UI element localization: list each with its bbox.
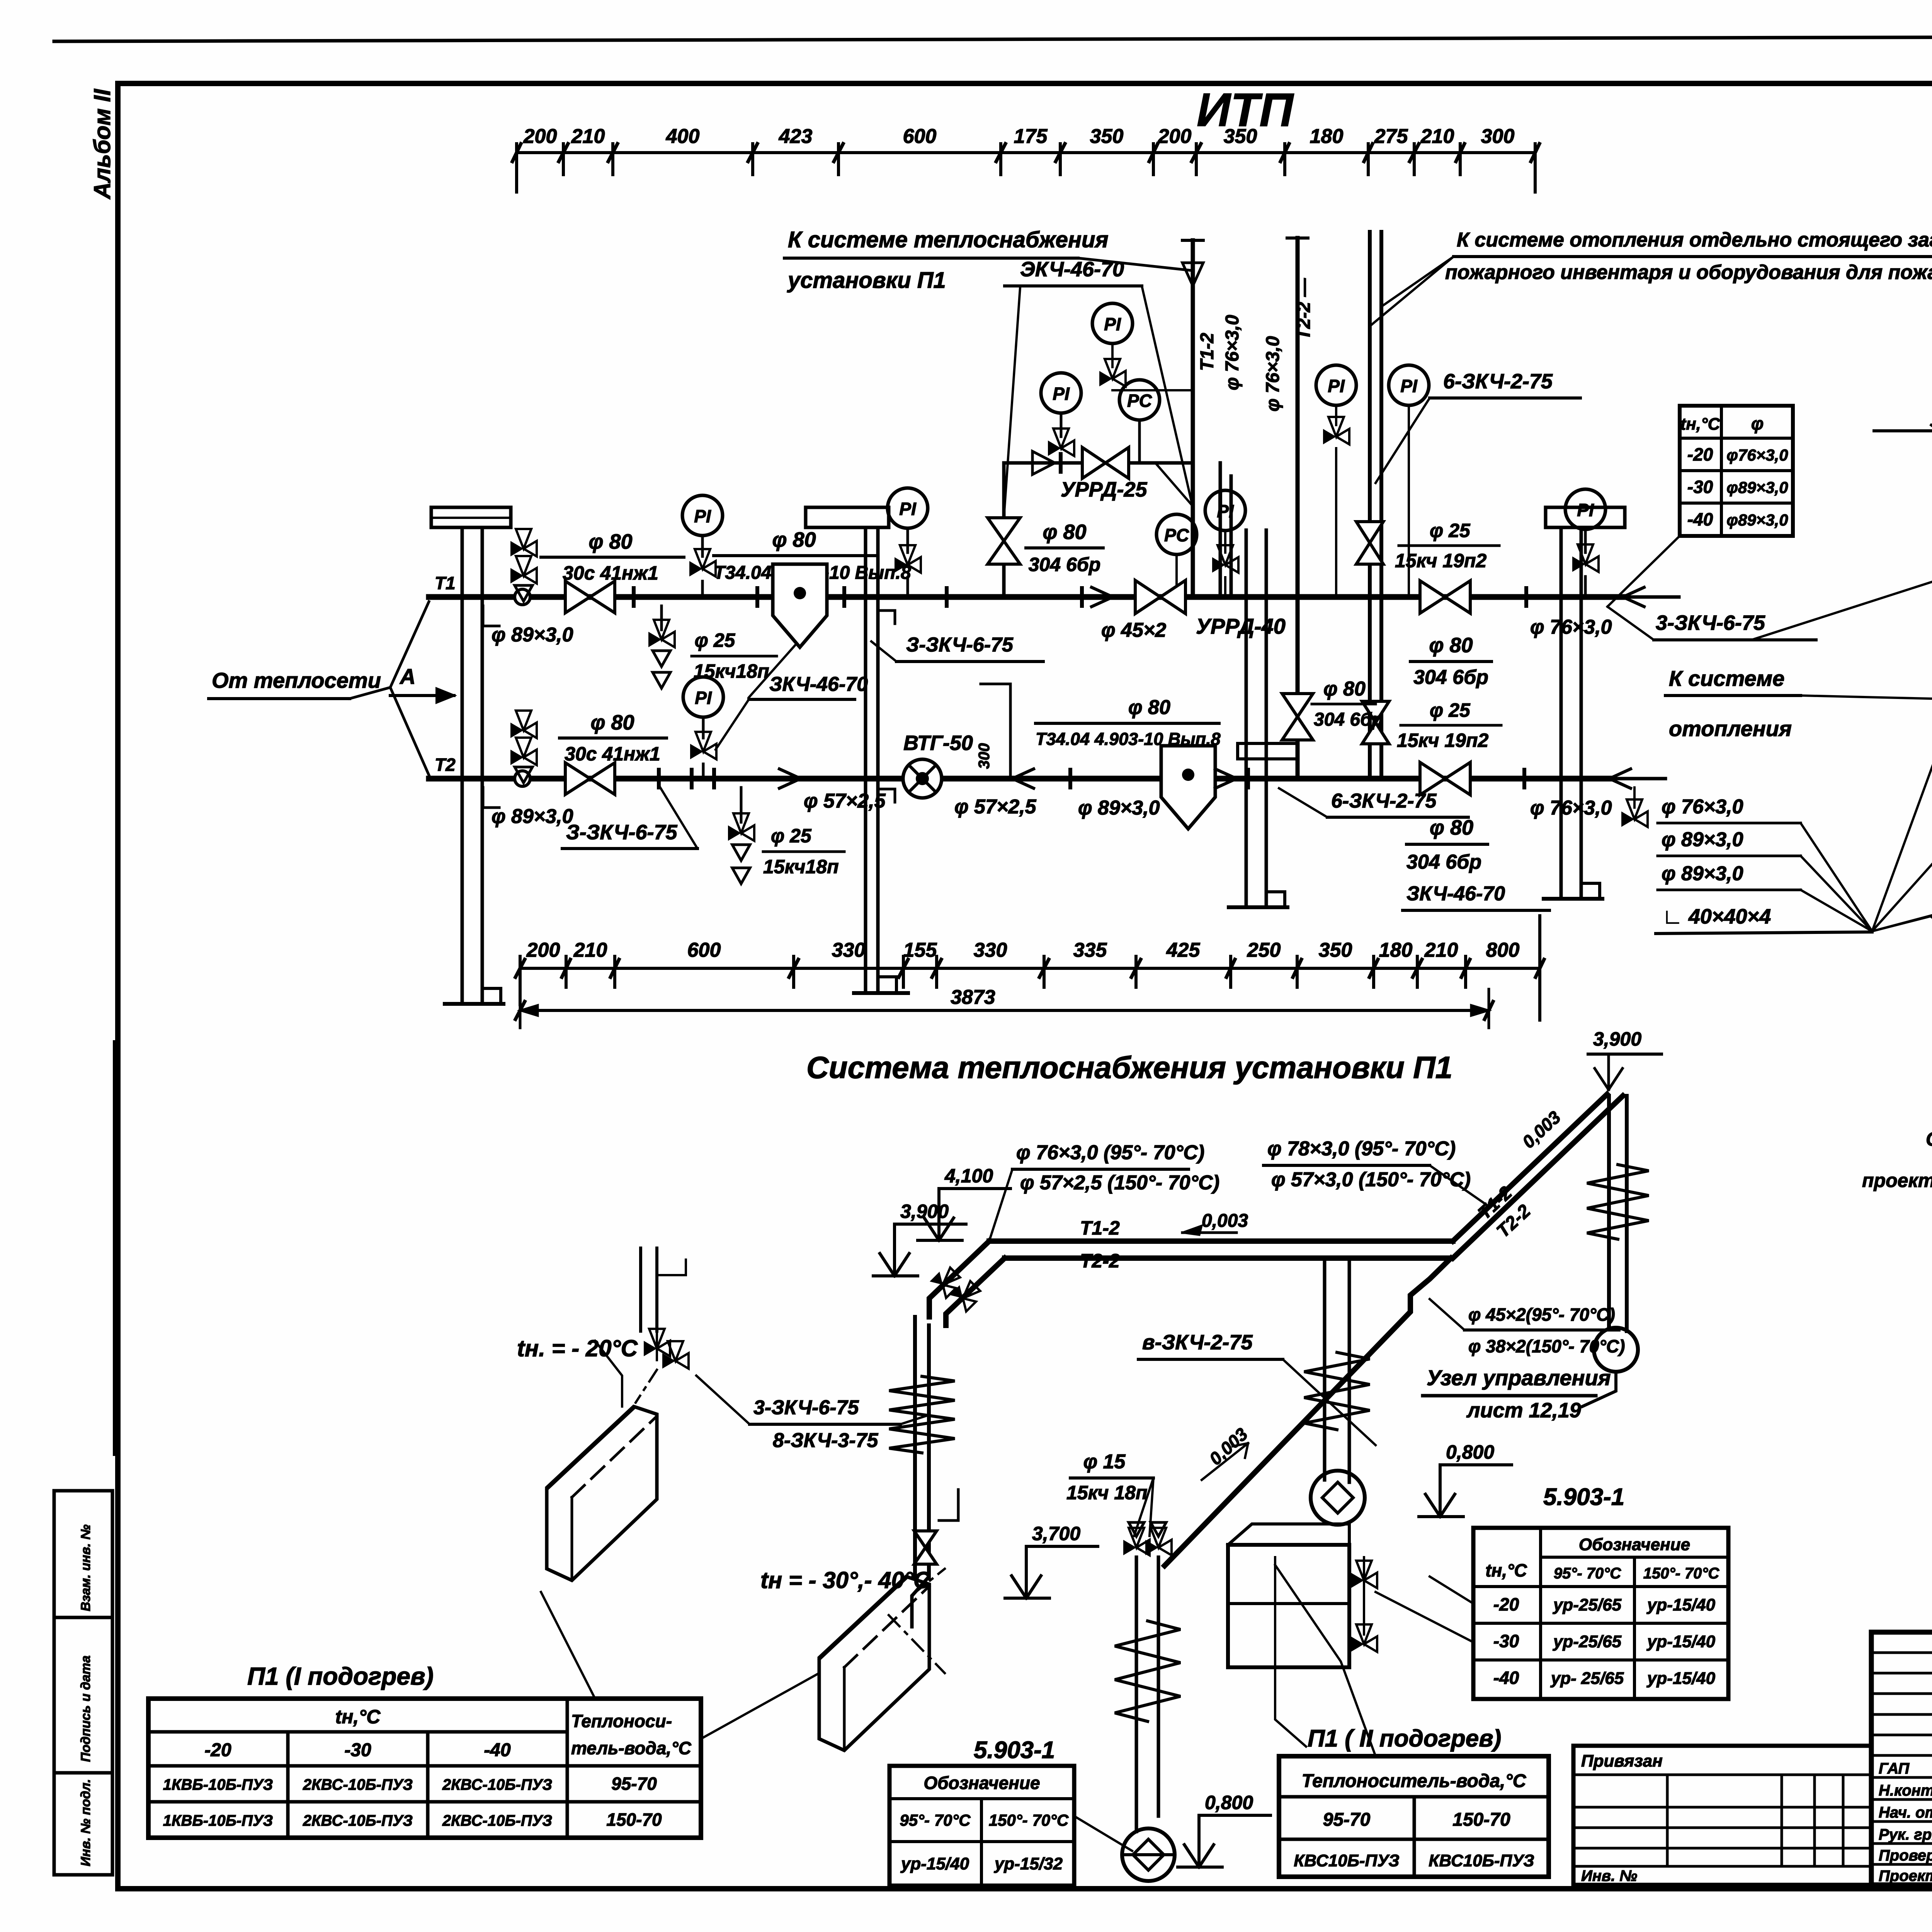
svg-text:А: А	[399, 664, 415, 689]
valve V3 on T2	[565, 763, 615, 794]
svg-text:φ 25: φ 25	[771, 825, 812, 847]
svg-text:φ 76×3,0: φ 76×3,0	[1530, 797, 1612, 819]
svg-text:φ89×3,0: φ89×3,0	[1726, 478, 1788, 497]
bypass pipe to УРРД-25	[1004, 463, 1193, 597]
svg-text:ур-25/65: ур-25/65	[1553, 1632, 1622, 1651]
pipe Т1-2 horizontal	[989, 1238, 1453, 1244]
table П1 II подогрев	[1279, 1725, 1549, 1877]
impulse line bypass	[1155, 463, 1193, 506]
diagonal Т2-2 upper part	[1453, 1096, 1623, 1258]
svg-text:φ 80: φ 80	[1430, 816, 1473, 839]
compensator mid pipes	[1304, 1352, 1370, 1430]
bracket on left riser	[939, 1490, 958, 1520]
svg-text:З-ЗКЧ-6-75: З-ЗКЧ-6-75	[566, 821, 678, 844]
label УРРД-40	[1196, 614, 1286, 638]
vertical label Т2-2 φ76×3,0	[1263, 278, 1314, 412]
pump circle lower right	[1594, 1328, 1638, 1372]
svg-text:-40: -40	[1687, 509, 1713, 529]
svg-text:30с 41нж1: 30с 41нж1	[565, 743, 660, 765]
table П1 I подогрев	[148, 1662, 701, 1838]
labels φ76/φ57 (left)	[989, 1141, 1219, 1241]
svg-text:φ 57×2,5: φ 57×2,5	[804, 790, 886, 812]
svg-text:φ 38×2(150°- 70°С): φ 38×2(150°- 70°С)	[1468, 1336, 1625, 1356]
svg-text:Т2: Т2	[435, 755, 456, 775]
label ВТГ-50	[903, 731, 973, 755]
svg-text:проекта и конкретных т: проекта и конкретных технических условия…	[1862, 1170, 1932, 1191]
svg-text:Проверил: Проверил	[1879, 1847, 1932, 1864]
left riser down	[915, 1317, 929, 1578]
annex box Привязан	[1573, 1746, 1871, 1885]
inlet note От теплосети	[209, 602, 429, 775]
label 3-ЗКЧ-6-75 / 8-ЗКЧ-3-75	[696, 1376, 929, 1452]
pipe Т2-2 horizontal	[1005, 1255, 1451, 1261]
leader to flag1	[1752, 520, 1932, 640]
svg-text:PI: PI	[694, 506, 711, 526]
svg-text:tн,°С: tн,°С	[1485, 1560, 1527, 1580]
svg-text:Привязан: Привязан	[1581, 1752, 1663, 1770]
leader from table	[1607, 536, 1680, 607]
svg-text:3,700: 3,700	[1032, 1523, 1080, 1544]
svg-text:300: 300	[976, 743, 993, 769]
leader to flag2	[1801, 696, 1932, 703]
svg-text:PI: PI	[899, 499, 917, 519]
svg-text:φ89×3,0: φ89×3,0	[1726, 511, 1788, 529]
svg-text:Инв. №: Инв. №	[1581, 1867, 1637, 1884]
slope 0,003 lower diagonal	[1202, 1424, 1252, 1480]
view A top tick	[1874, 429, 1932, 432]
drop pipes to elevator	[1136, 1557, 1158, 1832]
svg-text:PI: PI	[1104, 314, 1121, 334]
svg-text:ур-15/40: ур-15/40	[1646, 1595, 1716, 1614]
svg-text:PC: PC	[1164, 525, 1189, 545]
svg-text:200: 200	[523, 125, 557, 148]
svg-text:φ 89×3,0: φ 89×3,0	[1662, 828, 1743, 851]
svg-text:PC: PC	[1127, 391, 1152, 411]
svg-text:300: 300	[1481, 125, 1515, 148]
label φ89×3,0 on T1 inlet	[483, 606, 573, 646]
table 5.903-1 left	[889, 1737, 1074, 1886]
svg-text:95-70: 95-70	[1323, 1810, 1371, 1830]
label УРРД-25	[1061, 478, 1148, 501]
label φ25 15кч19п2 lower	[1397, 699, 1501, 751]
svg-text:УРРД-40: УРРД-40	[1196, 614, 1286, 638]
vent stack above T2 left	[510, 711, 537, 783]
svg-text:155: 155	[903, 939, 937, 961]
gauge PI-1 with cock	[682, 495, 723, 597]
svg-text:УРРД-25: УРРД-25	[1061, 478, 1148, 501]
regulator УРРД-25	[1082, 447, 1129, 478]
svg-text:150-70: 150-70	[1452, 1810, 1510, 1830]
valves at left elbow	[930, 1264, 983, 1311]
riser Т1-2 inlet check	[1182, 263, 1203, 515]
valve on bypass riser	[988, 518, 1020, 564]
svg-text:2КВС-10Б-ПУЗ: 2КВС-10Б-ПУЗ	[442, 1812, 552, 1829]
top dimension chain	[512, 125, 1539, 192]
svg-text:150°- 70°С: 150°- 70°С	[1643, 1565, 1720, 1582]
svg-text:8-ЗКЧ-3-75: 8-ЗКЧ-3-75	[773, 1429, 878, 1452]
valve on twin riser upper	[1356, 522, 1383, 564]
svg-text:175: 175	[1014, 125, 1048, 148]
gauge PI-8	[1565, 489, 1605, 597]
svg-text:ур-15/40: ур-15/40	[900, 1854, 969, 1873]
svg-text:пожарного инвентаря и оборудо: пожарного инвентаря и оборудования для п…	[1445, 261, 1932, 284]
svg-text:304 6бр: 304 6бр	[1029, 554, 1101, 575]
svg-text:tн = - 30°,- 40°С: tн = - 30°,- 40°С	[760, 1567, 931, 1593]
flange on T2	[657, 770, 661, 787]
lower title Система теплоснабжения установки П1	[806, 1050, 1452, 1085]
svg-text:Н.контр.: Н.контр.	[1879, 1782, 1932, 1799]
svg-text:φ 25: φ 25	[695, 629, 736, 651]
label φ76×3,0 T2 right	[1524, 770, 1612, 819]
svg-text:15кч 19п2: 15кч 19п2	[1397, 730, 1488, 751]
svg-text:335: 335	[1073, 939, 1107, 961]
valves at heater -20	[636, 1329, 689, 1403]
label 6-ЗКЧ-2-75 top	[1376, 370, 1580, 483]
wall section W1b	[854, 527, 908, 993]
svg-text:PI: PI	[1053, 384, 1070, 404]
frame left rough edge	[113, 1043, 119, 1453]
svg-text:304 6бр: 304 6бр	[1413, 666, 1488, 689]
leader 5.903-1 left	[1074, 1816, 1132, 1851]
gauge PI-3	[1041, 373, 1081, 463]
svg-text:φ 45×2(95°- 70°С): φ 45×2(95°- 70°С)	[1468, 1304, 1615, 1325]
svg-text:φ 76×3,0: φ 76×3,0	[1662, 796, 1743, 818]
svg-text:400: 400	[666, 125, 700, 148]
diagonal Т1-2 up	[1453, 1094, 1607, 1241]
svg-text:ЗКЧ-46-70: ЗКЧ-46-70	[1406, 883, 1505, 905]
svg-text:PI: PI	[1217, 501, 1234, 521]
gauge PI-2 with cock	[888, 488, 928, 597]
table tн-φ	[1680, 406, 1793, 536]
node T1 label	[435, 573, 456, 593]
svg-text:tн,°C: tн,°C	[1680, 415, 1721, 434]
svg-text:200: 200	[1158, 125, 1192, 148]
riser Т1-2 top tick	[1182, 239, 1203, 242]
svg-text:Рук. гр.: Рук. гр.	[1879, 1826, 1932, 1843]
svg-text:Обозначение: Обозначение	[1579, 1535, 1690, 1554]
svg-text:330: 330	[832, 939, 866, 961]
svg-text:ур-25/65: ур-25/65	[1553, 1595, 1622, 1614]
elevation 0,800 (right)	[1419, 1441, 1512, 1517]
svg-text:φ: φ	[1751, 413, 1764, 434]
filter F1 on T1	[757, 564, 844, 647]
svg-text:350: 350	[1319, 939, 1352, 961]
svg-text:2КВС-10Б-ПУЗ: 2КВС-10Б-ПУЗ	[303, 1776, 413, 1793]
svg-text:φ 76×3,0: φ 76×3,0	[1263, 336, 1283, 412]
arrow into ВТГ	[1012, 769, 1034, 788]
label φ80 30с41нж1 (V3)	[560, 711, 667, 765]
svg-text:Нач. отд.: Нач. отд.	[1879, 1804, 1932, 1821]
pipes into heater -20	[641, 1248, 686, 1331]
labels φ45 φ38 diagonal	[1430, 1299, 1625, 1356]
svg-text:1КВБ-10Б-ПУЗ: 1КВБ-10Б-ПУЗ	[163, 1776, 273, 1793]
wall W2 slab	[1238, 743, 1298, 759]
svg-text:3,900: 3,900	[900, 1201, 949, 1222]
svg-text:К системе отопления отдельно: К системе отопления отдельно стоящего за…	[1457, 229, 1932, 251]
flange pair on T1	[632, 588, 636, 606]
twin cocks on drop	[1123, 1522, 1172, 1555]
svg-text:800: 800	[1486, 939, 1520, 961]
svg-text:φ 25: φ 25	[1430, 520, 1471, 541]
note К системе отопления	[1665, 666, 1801, 741]
svg-text:φ 45×2: φ 45×2	[1101, 619, 1166, 641]
svg-text:5.903-1: 5.903-1	[974, 1737, 1055, 1764]
pipe T1 right end arrow	[1623, 587, 1644, 607]
label φ80 304 6бр (jumper)	[1312, 678, 1383, 730]
title ИТП	[1197, 83, 1294, 136]
svg-text:ур-15/32: ур-15/32	[994, 1854, 1063, 1873]
svg-text:425: 425	[1166, 939, 1201, 961]
slab above filter F1	[806, 507, 889, 527]
gauge PI-4 on riser	[1092, 303, 1193, 390]
svg-text:3-ЗКЧ-6-75: 3-ЗКЧ-6-75	[1656, 611, 1765, 634]
left margin box Взам.инв.№	[54, 1491, 112, 1617]
riser Т2-2	[1296, 238, 1300, 779]
svg-text:304 6бр: 304 6бр	[1314, 709, 1383, 730]
label φ80 304 6бр (bypass)	[1026, 520, 1103, 575]
svg-text:ур- 25/65: ур- 25/65	[1550, 1669, 1624, 1688]
svg-text:φ 80: φ 80	[590, 711, 634, 734]
label φ15 15кч18п	[1066, 1451, 1153, 1536]
section mark А	[390, 664, 454, 702]
slope 0,003 diagonal	[1518, 1107, 1565, 1152]
flange pair T1 mid	[947, 588, 1082, 606]
sheet outer top trim line	[54, 36, 1932, 41]
vertical label Т1-2 φ76×3,0	[1197, 315, 1243, 390]
labels φ stack right	[1658, 796, 1801, 890]
gauge PC-2 near УРРД-40	[1156, 514, 1197, 597]
svg-text:210: 210	[1424, 939, 1458, 961]
svg-text:ИТП: ИТП	[1197, 83, 1294, 136]
elevation 4,100	[918, 1165, 1010, 1240]
svg-text:КВС10Б-ПУЗ: КВС10Б-ПУЗ	[1429, 1851, 1534, 1870]
elevation 3,900 left	[873, 1201, 966, 1276]
label 3-ЗКЧ-6-75 right	[1607, 607, 1816, 640]
compensator on drop	[1115, 1621, 1180, 1721]
pipe T2 right end arrow	[1609, 769, 1631, 788]
label tн=-30,-40°C	[760, 1567, 931, 1593]
slope 0,003 on horizontal	[1182, 1211, 1248, 1235]
svg-text:От теплосети: От теплосети	[212, 668, 381, 692]
svg-text:φ 76×3,0: φ 76×3,0	[1530, 616, 1612, 638]
svg-text:3873: 3873	[951, 986, 995, 1009]
label φ25 15кч19п2 upper	[1395, 520, 1499, 571]
svg-text:φ 76×3,0: φ 76×3,0	[1222, 315, 1243, 390]
svg-text:3,900: 3,900	[1593, 1028, 1641, 1050]
label φ57×2,5 right	[954, 796, 1037, 818]
svg-text:φ76×3,0: φ76×3,0	[1726, 446, 1788, 464]
elevation 3,900 peak	[1588, 1028, 1662, 1090]
label φ89×3,0 mid	[1070, 770, 1160, 819]
gauge PI-10 above T2	[683, 677, 723, 787]
svg-text:180: 180	[1379, 939, 1413, 961]
svg-text:PI: PI	[1577, 500, 1594, 520]
left margin box Инв.№ подл.	[54, 1773, 112, 1875]
vertical label Альбом II	[89, 88, 115, 200]
fan leaders to view A	[1801, 609, 1932, 931]
svg-text:φ 57×2,5: φ 57×2,5	[954, 796, 1037, 818]
node T2 label	[435, 755, 456, 775]
svg-text:ВТГ-50: ВТГ-50	[903, 731, 973, 755]
svg-text:в-ЗКЧ-2-75: в-ЗКЧ-2-75	[1142, 1331, 1253, 1354]
svg-text:200: 200	[526, 939, 560, 961]
mixing circle mid	[1311, 1471, 1365, 1525]
check valve on УРРД-25 branch	[1032, 451, 1061, 474]
wall W3 top slab	[1546, 507, 1625, 527]
svg-text:установки П1: установки П1	[787, 268, 946, 293]
note К системе отопления склада	[1445, 229, 1932, 284]
svg-text:0,800: 0,800	[1446, 1441, 1494, 1463]
svg-text:250: 250	[1247, 939, 1281, 961]
svg-text:отопления: отопления	[1669, 716, 1792, 741]
svg-text:Т1: Т1	[435, 573, 456, 593]
svg-text:φ 80: φ 80	[1323, 678, 1366, 700]
leader from П1-I table	[541, 1592, 819, 1739]
riser Т1-2	[1191, 240, 1195, 597]
diagonal jog segment	[1451, 1094, 1623, 1258]
valve V1 on T1	[565, 581, 615, 613]
svg-text:φ 76×3,0 (95°- 70°С): φ 76×3,0 (95°- 70°С)	[1016, 1141, 1204, 1164]
label ЗКЧ-46-70 mid	[716, 643, 868, 750]
view A left break line	[1931, 425, 1932, 930]
tank leader	[1275, 1557, 1306, 1747]
svg-text:-40: -40	[484, 1740, 511, 1760]
svg-text:Т1-2: Т1-2	[1080, 1217, 1120, 1239]
svg-text:тель-вода,°С: тель-вода,°С	[571, 1738, 692, 1758]
svg-text:П1 (I подогрев): П1 (I подогрев)	[247, 1662, 434, 1690]
svg-text:Система теплоснабжения уста: Система теплоснабжения установки П1	[806, 1050, 1452, 1085]
svg-text:210: 210	[1420, 125, 1454, 148]
filter F2 on T2	[1161, 746, 1248, 829]
drain under T2	[728, 787, 754, 884]
svg-text:350: 350	[1090, 125, 1124, 148]
svg-text:КВС10Б-ПУЗ: КВС10Б-ПУЗ	[1294, 1851, 1399, 1870]
svg-text:95°- 70°С: 95°- 70°С	[900, 1811, 971, 1829]
table 5.903-1 right	[1473, 1484, 1728, 1699]
svg-text:φ 80: φ 80	[772, 528, 816, 551]
svg-text:330: 330	[974, 939, 1007, 961]
svg-text:φ 80: φ 80	[1043, 520, 1086, 544]
diagonal Т2-2 up	[1165, 1258, 1451, 1566]
note line 1	[1926, 1128, 1932, 1150]
label в-ЗКЧ-2-75	[1138, 1331, 1376, 1445]
svg-text:К системе: К системе	[1669, 666, 1784, 690]
svg-text:Схема ИТП и приборы авто: Схема ИТП и приборы автоматики корректир…	[1926, 1128, 1932, 1150]
label φ89×3,0 on T2 inlet	[483, 787, 573, 828]
svg-text:600: 600	[903, 125, 937, 148]
svg-text:2КВС-10Б-ПУЗ: 2КВС-10Б-ПУЗ	[442, 1776, 552, 1793]
svg-text:tн,°С: tн,°С	[335, 1706, 381, 1728]
gauge PI-7 near УРРД-40	[1205, 490, 1245, 597]
label φ57×2,5 left	[804, 790, 886, 812]
label З-ЗКЧ-6-75 mid	[871, 634, 1043, 662]
svg-text:Т1-2: Т1-2	[1197, 333, 1218, 371]
svg-text:Обозначение: Обозначение	[923, 1773, 1040, 1793]
label 3-ЗКЧ-6-75 under T2	[562, 785, 697, 849]
arrow on T2 left	[779, 769, 801, 788]
svg-text:φ 15: φ 15	[1083, 1451, 1126, 1473]
gauge PI-6	[1389, 365, 1429, 597]
drain under T2 right	[1621, 787, 1648, 827]
bottom dimension chain	[515, 916, 1544, 1020]
wall W1 top slab	[431, 507, 511, 527]
svg-text:3-ЗКЧ-6-75: 3-ЗКЧ-6-75	[753, 1396, 859, 1419]
label φ76×3,0 T1 right	[1526, 588, 1612, 638]
svg-text:150-70: 150-70	[606, 1810, 662, 1830]
wall W1b sleeve marks	[878, 611, 895, 802]
svg-text:2КВС-10Б-ПУЗ: 2КВС-10Б-ПУЗ	[303, 1812, 413, 1829]
wall section W3 (right)	[1544, 530, 1602, 899]
label φ80 30с41нж1 (V1)	[541, 530, 684, 584]
svg-text:tн. = - 20°С: tн. = - 20°С	[517, 1335, 638, 1361]
svg-text:Узел управления: Узел управления	[1427, 1366, 1611, 1390]
svg-text:-30: -30	[1687, 477, 1713, 497]
svg-text:PI: PI	[1328, 376, 1345, 396]
gauge PC-1	[1119, 380, 1160, 463]
label φ25 15кч18п (drain T1)	[692, 629, 777, 682]
svg-text:φ 89×3,0: φ 89×3,0	[1078, 797, 1160, 819]
svg-text:275: 275	[1374, 125, 1408, 148]
drain valve under T1	[648, 606, 675, 688]
svg-text:Подпись и дата: Подпись и дата	[78, 1655, 93, 1762]
elevation 0,800 (mid)	[1178, 1792, 1270, 1867]
leader П1-II table	[1275, 1565, 1376, 1756]
svg-text:-20: -20	[204, 1740, 231, 1760]
leader to twin risers	[1372, 257, 1454, 325]
svg-text:PI: PI	[695, 688, 712, 708]
svg-text:φ 89×3,0: φ 89×3,0	[1662, 862, 1743, 885]
svg-text:0,003: 0,003	[1202, 1211, 1248, 1231]
svg-text:304 6бр: 304 6бр	[1406, 851, 1481, 873]
labels Т1-2 Т2-2	[1080, 1217, 1213, 1272]
svg-text:Т2-2 —: Т2-2 —	[1294, 278, 1314, 340]
heater box tн-30-40 (isometric)	[819, 1577, 929, 1750]
svg-text:ГАП: ГАП	[1879, 1760, 1910, 1777]
svg-text:-40: -40	[1493, 1668, 1519, 1688]
svg-text:φ 78×3,0 (95°- 70°С): φ 78×3,0 (95°- 70°С)	[1267, 1138, 1456, 1160]
svg-text:ЗКЧ-46-70: ЗКЧ-46-70	[769, 673, 868, 696]
valves right of tank	[1351, 1557, 1377, 1652]
compensator right vertical	[1587, 1165, 1649, 1239]
left margin box Подпись и дата	[54, 1617, 112, 1773]
note К системе теплоснабжения	[784, 227, 1298, 293]
svg-text:210: 210	[573, 939, 607, 961]
leader 5.903-1 right	[1376, 1577, 1473, 1642]
label tн=-20°C	[517, 1335, 638, 1361]
svg-text:-30: -30	[1493, 1631, 1519, 1651]
label ЭКЧ-46-70 top	[1004, 258, 1142, 462]
svg-text:Альбом II: Альбом II	[89, 88, 115, 200]
riser Т2-2 top tick	[1287, 236, 1308, 240]
valve V4 on T2 right	[1420, 762, 1470, 795]
svg-text:4,100: 4,100	[944, 1165, 993, 1187]
regulator УРРД-40 on T1	[1092, 580, 1185, 614]
right vertical pair	[1609, 1096, 1627, 1331]
svg-text:180: 180	[1310, 125, 1344, 148]
compensator on left riser	[889, 1376, 955, 1453]
svg-text:95-70: 95-70	[611, 1774, 657, 1794]
svg-text:95°- 70°С: 95°- 70°С	[1554, 1565, 1621, 1582]
svg-text:15кч18п: 15кч18п	[763, 856, 839, 878]
svg-text:ур-15/40: ур-15/40	[1646, 1632, 1716, 1651]
svg-text:Теплоноситель-вода,°С: Теплоноситель-вода,°С	[1302, 1771, 1527, 1791]
pipe from pump	[1582, 1372, 1616, 1406]
elbow to heater -20	[912, 1578, 927, 1627]
svg-text:1КВБ-10Б-ПУЗ: 1КВБ-10Б-ПУЗ	[163, 1812, 273, 1829]
jumper valve on riser Т2-2	[1282, 694, 1313, 740]
svg-text:∟ 40×40×4: ∟ 40×40×4	[1662, 905, 1771, 928]
pipe T2 main	[429, 776, 1665, 782]
